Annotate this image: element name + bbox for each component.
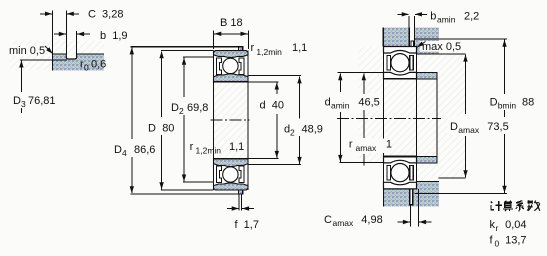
svg-text:max 0,5: max 0,5 xyxy=(422,41,461,53)
svg-text:r: r xyxy=(251,42,255,54)
svg-text:0,6: 0,6 xyxy=(91,59,106,71)
dim C_amax arrows xyxy=(397,221,410,223)
D_amax extension top (shoulder bottom edge) xyxy=(417,53,466,55)
svg-text:amax: amax xyxy=(356,143,378,153)
dim C arrows xyxy=(40,13,52,15)
svg-text:b 1,9: b 1,9 xyxy=(100,30,128,42)
calculation factors title (drawn CJK strokes) xyxy=(491,201,540,212)
bearing bottom ball xyxy=(391,164,409,182)
svg-text:88: 88 xyxy=(522,97,534,109)
dim d line xyxy=(276,83,278,95)
inner ring bottom (blue) xyxy=(214,159,249,167)
housing groove slot top (white) xyxy=(409,28,414,47)
svg-text:f 1,7: f 1,7 xyxy=(235,219,259,231)
shield top right xyxy=(239,58,244,75)
ball top xyxy=(223,58,238,73)
dim B arrows (inside, pointing out) xyxy=(214,33,249,35)
dim D4 extension bottom xyxy=(131,193,243,195)
dim B extension lines xyxy=(213,31,215,50)
svg-text:D: D xyxy=(148,123,156,135)
svg-text:d 40: d 40 xyxy=(260,100,284,112)
dim b_amin extension lines xyxy=(408,16,410,28)
bearing bottom faces xyxy=(384,157,417,189)
dim D_amax line xyxy=(465,55,467,114)
ball bottom xyxy=(223,167,238,182)
outer ring block (blue) xyxy=(53,54,105,71)
shaft/housing ghost hatch right xyxy=(417,54,466,178)
dim D_amax extension bottom xyxy=(439,177,466,179)
housing top left edge xyxy=(382,28,384,47)
glyph ji xyxy=(491,201,502,211)
shaft shoulder top (blue) xyxy=(417,72,438,78)
bore line top xyxy=(214,81,249,83)
dim d extension bottom xyxy=(248,158,279,160)
svg-text:0: 0 xyxy=(495,239,500,249)
housing bottom block (blue) xyxy=(384,189,440,207)
svg-text:2,2: 2,2 xyxy=(464,11,479,23)
svg-text:3: 3 xyxy=(21,99,26,109)
housing groove walls top xyxy=(409,28,414,47)
bearing top outer ring xyxy=(384,47,417,54)
bearing bottom outer ring xyxy=(384,182,417,189)
shaft shoulder top outline xyxy=(417,72,438,78)
dim C extension lines xyxy=(52,11,54,55)
axis center line xyxy=(211,119,250,121)
snap ring tab bottom xyxy=(239,190,243,194)
min 0,5 leader arrow xyxy=(45,46,53,54)
svg-text:2: 2 xyxy=(179,106,184,116)
svg-text:D: D xyxy=(171,102,179,114)
svg-text:r: r xyxy=(349,139,353,151)
dim d_amin line xyxy=(339,73,341,92)
bearing top seal right xyxy=(410,56,414,70)
groove outline xyxy=(66,54,76,59)
svg-text:69,8: 69,8 xyxy=(187,102,208,114)
housing bottom bore line xyxy=(384,188,417,190)
axis line right figure xyxy=(337,117,441,119)
shield bottom left xyxy=(217,166,222,183)
dim d2 extension bottom xyxy=(248,164,301,166)
housing hatch background xyxy=(10,41,104,71)
label d_amin 46,5 white box xyxy=(322,94,383,112)
svg-text:C: C xyxy=(324,214,332,226)
glyph shu xyxy=(527,201,540,211)
dim D2 extension top xyxy=(183,56,214,58)
svg-text:2: 2 xyxy=(290,128,295,138)
shaft shoulder face silhouette xyxy=(436,72,438,162)
svg-text:min 0,5: min 0,5 xyxy=(9,45,45,57)
bearing bottom seal right xyxy=(410,166,414,180)
outer ring top (blue) xyxy=(214,51,249,58)
dim r_amax line xyxy=(363,73,365,94)
dim D4 extension top xyxy=(131,46,239,48)
bore see-through hatch xyxy=(214,82,248,159)
dim D extension bottom xyxy=(161,189,214,191)
svg-text:73,5: 73,5 xyxy=(487,121,508,133)
svg-text:amax: amax xyxy=(333,218,355,228)
bearing bottom inner ring xyxy=(384,157,417,163)
dim C_amax extension lines xyxy=(409,206,411,227)
D3 dimension arrow xyxy=(20,61,22,93)
shaft ghost hatch bore gap xyxy=(384,79,417,157)
bore line top xyxy=(384,78,417,80)
dim d_amin extension bottom xyxy=(340,162,384,164)
dim D_bmin line xyxy=(504,40,506,94)
svg-text:amin: amin xyxy=(331,101,350,111)
shield bottom right xyxy=(239,166,244,183)
svg-text:48,9: 48,9 xyxy=(302,124,323,136)
bearing bottom seal left xyxy=(387,166,391,180)
svg-text:D: D xyxy=(13,95,21,107)
snap ring bottom (dark tab in slot) xyxy=(410,189,413,205)
inner ring top (blue) xyxy=(214,74,249,82)
dim f extension lines xyxy=(238,195,240,211)
bearing silhouette between sections xyxy=(384,79,417,157)
bearing bottom section white xyxy=(384,157,417,189)
dim b extension line xyxy=(76,31,78,54)
svg-text:r: r xyxy=(190,141,194,153)
housing top block (blue) xyxy=(383,28,439,47)
svg-text:0: 0 xyxy=(84,63,89,73)
svg-text:B 18: B 18 xyxy=(220,17,243,29)
dim d2 line xyxy=(299,76,301,118)
svg-text:1: 1 xyxy=(386,139,392,151)
bearing top faces xyxy=(384,47,417,79)
svg-text:D: D xyxy=(114,144,122,156)
snap ring tab top xyxy=(239,47,243,51)
shaft shoulder bottom outline xyxy=(417,157,438,163)
housing shoulder bottom top edge xyxy=(417,180,440,182)
dim d_amin extension top xyxy=(338,72,385,74)
svg-text:1,1: 1,1 xyxy=(229,141,244,153)
glyph xi xyxy=(516,201,524,211)
dim d2 extension top xyxy=(248,75,301,77)
shaft shoulder bottom (blue) xyxy=(417,157,438,163)
svg-text:b: b xyxy=(430,11,436,23)
bore line bottom xyxy=(384,156,417,158)
bore line bottom xyxy=(214,158,249,160)
bearing top section white xyxy=(384,47,417,79)
svg-text:D: D xyxy=(450,121,458,133)
D3 level line xyxy=(20,59,67,61)
shield top left xyxy=(217,58,222,75)
dim f arrows xyxy=(227,208,239,210)
svg-text:46,5: 46,5 xyxy=(358,97,379,109)
svg-text:amin: amin xyxy=(437,15,456,25)
dim D2 line xyxy=(183,58,185,97)
bearing face silhouette left xyxy=(213,51,215,190)
housing bottom left edge xyxy=(383,189,385,207)
svg-text:1,1: 1,1 xyxy=(292,42,307,54)
bearing top inner ring xyxy=(384,72,417,78)
dim D line xyxy=(161,51,163,117)
svg-text:1,2min: 1,2min xyxy=(256,47,282,57)
outer ring bottom (blue) xyxy=(214,183,249,190)
min 0,5 label xyxy=(7,45,45,56)
dim b arrows xyxy=(54,33,66,35)
dim d extension top xyxy=(248,81,279,83)
label D_amax 73,5 xyxy=(448,117,482,136)
svg-text:1,2min: 1,2min xyxy=(196,146,222,156)
svg-text:r: r xyxy=(496,223,499,233)
bearing top ball xyxy=(391,54,409,72)
svg-text:4,98: 4,98 xyxy=(361,214,382,226)
glyph suan xyxy=(503,201,513,211)
dim D2 extension bottom xyxy=(183,181,214,183)
dim D_bmin extension top xyxy=(414,38,507,40)
dim D4 line xyxy=(131,47,133,139)
shaft ghost hatch left xyxy=(359,47,384,163)
block left edge xyxy=(52,54,54,71)
svg-text:0,04: 0,04 xyxy=(505,219,526,231)
bearing face silhouette right xyxy=(247,51,249,190)
housing shoulder bottom (blue) xyxy=(417,181,440,188)
svg-text:86,6: 86,6 xyxy=(134,144,155,156)
dim D_bmin extension bottom xyxy=(414,193,507,195)
svg-text:4: 4 xyxy=(122,148,127,158)
dim D extension top xyxy=(161,50,214,52)
dim b_amin arrows xyxy=(397,13,408,15)
svg-text:D: D xyxy=(490,97,498,109)
housing top bore line xyxy=(383,46,416,48)
svg-text:76,81: 76,81 xyxy=(28,95,56,107)
block top edge xyxy=(53,53,105,55)
groove (white notch) xyxy=(66,54,76,59)
max 0,5 leader xyxy=(417,42,426,48)
svg-text:C 3,28: C 3,28 xyxy=(88,9,123,21)
housing shoulder top (blue) xyxy=(417,47,440,54)
label r_amax 1 white box xyxy=(347,139,391,154)
svg-text:80: 80 xyxy=(162,123,174,135)
max 0,5 white box xyxy=(420,41,462,52)
svg-text:d: d xyxy=(325,97,331,109)
svg-text:13,7: 13,7 xyxy=(505,235,526,247)
svg-text:amax: amax xyxy=(458,125,480,135)
bearing top seal left xyxy=(387,56,391,70)
svg-text:bmin: bmin xyxy=(498,101,517,111)
snap ring top xyxy=(411,41,414,47)
